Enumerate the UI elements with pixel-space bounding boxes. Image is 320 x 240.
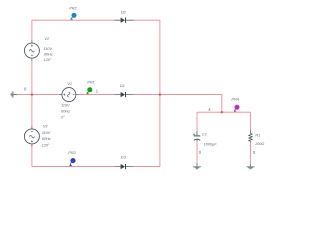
wire drop to node 4: [221, 95, 223, 113]
capacitor C1: [193, 131, 200, 142]
source V1: [59, 88, 79, 102]
ground under C1: [193, 163, 201, 169]
svg-text:0°: 0°: [61, 115, 65, 120]
junction right column net 4: [159, 93, 161, 95]
resistor R1: [249, 131, 252, 143]
svg-text:PR3: PR3: [68, 150, 76, 155]
svg-text:PR1: PR1: [87, 80, 94, 85]
wire C1 branch: [196, 112, 198, 163]
wire right column common cathode: [159, 20, 161, 166]
svg-text:0: 0: [199, 150, 202, 155]
svg-text:V1: V1: [67, 81, 72, 86]
svg-text:PR4: PR4: [231, 96, 239, 101]
svg-text:V3: V3: [43, 124, 49, 129]
V3 labels: [40, 124, 50, 148]
probe PR2: [70, 13, 76, 20]
ground left (net 0): [11, 91, 17, 98]
svg-text:V2: V2: [44, 36, 50, 41]
svg-text:-120°: -120°: [40, 142, 50, 147]
svg-text:60Hz: 60Hz: [44, 52, 53, 57]
probe PR3: [69, 158, 75, 166]
wire middle horizontal net 1: [17, 94, 222, 96]
ground under R1: [246, 164, 254, 169]
svg-text:R1: R1: [255, 133, 260, 138]
diode D3: [114, 164, 134, 169]
junction node 4 rail: [221, 111, 223, 113]
source V3: [24, 126, 39, 147]
C1 labels: [202, 132, 217, 147]
wire top horizontal net 2: [32, 19, 160, 21]
svg-text:1000µF: 1000µF: [204, 142, 218, 147]
diode D1: [114, 92, 134, 97]
svg-text:110V: 110V: [42, 130, 51, 135]
svg-text:D3: D3: [121, 155, 127, 160]
svg-text:60Hz: 60Hz: [61, 108, 70, 113]
svg-text:4: 4: [208, 107, 211, 112]
svg-text:60Hz: 60Hz: [42, 136, 51, 141]
wire left column net (V2 top / V2 bottom to node0 to V3 / V3 bottom): [31, 20, 33, 166]
svg-text:0: 0: [253, 150, 256, 155]
svg-text:110V: 110V: [43, 46, 52, 51]
wire node 4 rail: [197, 111, 251, 113]
svg-text:D2: D2: [121, 10, 127, 15]
svg-text:100Ω: 100Ω: [255, 141, 264, 146]
wire R1 branch: [250, 112, 252, 164]
diode D2: [114, 18, 134, 23]
probe PR1: [86, 87, 92, 94]
svg-text:1: 1: [96, 88, 99, 93]
svg-text:PR2: PR2: [69, 6, 77, 11]
wire bottom horizontal net 3: [32, 166, 160, 168]
V2 labels: [43, 36, 52, 62]
R1 labels: [255, 133, 264, 146]
V1 labels: [61, 81, 72, 120]
svg-text:D1: D1: [120, 83, 125, 88]
svg-text:120°: 120°: [44, 57, 52, 62]
junction node 0: [31, 93, 33, 95]
probe PR4: [234, 105, 240, 112]
svg-text:110V: 110V: [61, 102, 70, 107]
source V2: [24, 40, 39, 61]
svg-text:C1: C1: [202, 132, 207, 137]
svg-text:0: 0: [24, 87, 27, 92]
